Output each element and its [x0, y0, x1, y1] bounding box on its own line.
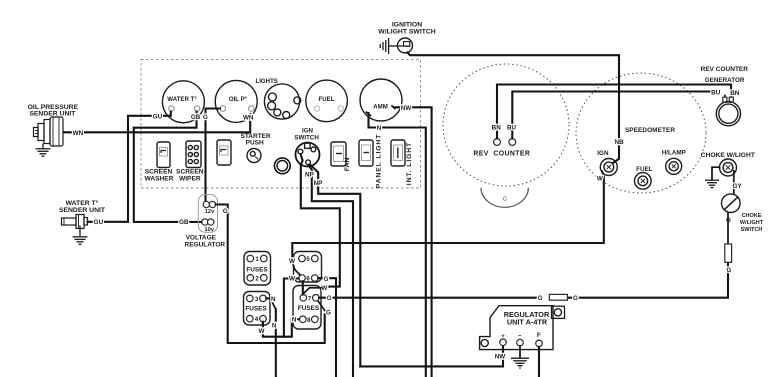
switch FAN: [331, 142, 346, 166]
svg-text:BU: BU: [507, 125, 517, 132]
svg-text:FUSES: FUSES: [245, 306, 267, 313]
svg-text:REV COUNTER: REV COUNTER: [701, 66, 749, 73]
svg-text:BU: BU: [711, 89, 721, 96]
wire: choke lamp to ground: [712, 167, 719, 180]
svg-text:W: W: [597, 175, 603, 182]
svg-text:FUEL: FUEL: [319, 96, 335, 103]
svg-text:C: C: [503, 197, 507, 203]
wire G net: regulator 12v to fuse7 (big loop): [216, 205, 325, 344]
rev counter terminals: [494, 139, 501, 146]
gauge OIL P: [215, 80, 257, 122]
svg-text:CHOKE: CHOKE: [742, 213, 762, 219]
wire W net: speedometer IGN lamp to fuse area: [292, 172, 604, 258]
speedometer dotted outline: [576, 73, 706, 193]
svg-text:W/LIGHT: W/LIGHT: [740, 220, 764, 226]
svg-text:GB: GB: [191, 114, 201, 121]
svg-text:IGN: IGN: [302, 127, 314, 134]
svg-text:WN: WN: [73, 130, 84, 137]
choke w/light switch: [722, 194, 741, 213]
ground at ignition w/light switch (horizontal): [380, 38, 397, 54]
ground at regulator - terminal: [519, 346, 521, 358]
svg-text:UNIT A-4TR: UNIT A-4TR: [507, 318, 548, 327]
svg-text:−: −: [518, 333, 522, 339]
fuse block 1-2: [244, 252, 271, 286]
cigar lighter ring: [274, 158, 290, 174]
wire NW: branch to regulator + terminal: [360, 346, 503, 367]
svg-text:NW: NW: [401, 105, 412, 112]
svg-text:AMM: AMM: [373, 104, 388, 111]
wire GU water sender to junction: [88, 221, 129, 223]
svg-text:PUSH: PUSH: [246, 139, 264, 146]
svg-text:GU: GU: [153, 113, 163, 120]
switch SCREEN WIPER: [186, 141, 201, 168]
svg-text:FUSES: FUSES: [298, 305, 320, 312]
svg-text:SENDER UNIT: SENDER UNIT: [59, 207, 106, 214]
wire BN: rev counter to generator: [497, 85, 731, 139]
svg-text:NW: NW: [495, 353, 506, 360]
regulator unit A-4TR: [480, 306, 553, 350]
svg-text:BN: BN: [730, 90, 740, 97]
svg-text:SWITCH: SWITCH: [741, 227, 763, 233]
fuse block 3-4: [244, 292, 271, 326]
voltage regulator: [198, 195, 217, 233]
svg-text:N: N: [377, 125, 382, 132]
svg-text:WN: WN: [243, 114, 254, 121]
svg-text:FUSES: FUSES: [246, 267, 268, 274]
wire N1: fuse3 to bottom: [266, 297, 271, 299]
inline fuse (choke circuit): [725, 244, 732, 262]
svg-text:BN: BN: [492, 125, 502, 132]
wire N: ammeter to bottom edge: [369, 113, 426, 377]
svg-text:G: G: [538, 295, 543, 302]
wire NP net A: ign switch to W3/fuse6: [301, 154, 340, 287]
switch PANEL LIGHT: [359, 140, 373, 166]
svg-text:WIPER: WIPER: [179, 176, 201, 183]
svg-text:GU: GU: [94, 219, 104, 226]
wire GY: choke lamp to choke switch: [733, 171, 735, 194]
svg-text:WATER T°: WATER T°: [66, 199, 99, 207]
ground at choke lamp: [705, 180, 719, 187]
gauge AMM: [360, 79, 402, 121]
ground at oil sender: [36, 144, 51, 157]
svg-text:12v: 12v: [205, 209, 215, 215]
svg-text:GB: GB: [179, 219, 189, 226]
svg-text:W: W: [321, 285, 327, 292]
svg-text:CHOKE W/LIGHT: CHOKE W/LIGHT: [701, 152, 756, 159]
svg-text:N: N: [271, 296, 276, 303]
ammeter terminal ticks: [367, 106, 396, 116]
fuse block 5-6: [294, 252, 322, 283]
svg-text:W: W: [289, 258, 295, 265]
switch unlabeled (lighting): [217, 140, 231, 165]
svg-text:NB: NB: [614, 139, 624, 146]
wire: choke switch down to inline fuse: [727, 213, 729, 244]
svg-text:G: G: [223, 208, 228, 215]
svg-text:VOLTAGE: VOLTAGE: [186, 235, 217, 242]
svg-text:N: N: [292, 316, 297, 323]
svg-text:G: G: [573, 295, 578, 302]
svg-text:NP: NP: [305, 171, 314, 178]
wire NW: ammeter to bottom edge: [395, 107, 432, 377]
wire GU net: water gauge left terminal down to sender junction: [128, 112, 171, 222]
svg-text:G: G: [326, 310, 331, 317]
svg-text:W: W: [289, 276, 295, 283]
svg-text:W/LIGHT SWITCH: W/LIGHT SWITCH: [378, 29, 435, 36]
wire WN oil sender to oil gauge: [64, 114, 251, 132]
svg-text:OIL P°: OIL P°: [229, 96, 248, 103]
svg-text:NP: NP: [314, 180, 323, 187]
svg-text:PANEL LIGHT: PANEL LIGHT: [375, 134, 382, 189]
svg-text:FAN: FAN: [344, 158, 351, 172]
wire G bus: fuse7-right to inline fuse and choke switch: [319, 297, 536, 299]
wire W2: fuse6-left to down riser: [284, 279, 299, 337]
svg-text:G: G: [203, 114, 208, 121]
svg-text:G: G: [726, 267, 731, 274]
gauge LIGHTS: [264, 84, 299, 119]
switch SCREEN WASHER: [157, 142, 170, 168]
wire F: regulator to bottom edge: [538, 347, 540, 377]
wire NP net C: ign switch to regulator + (NW): [310, 164, 360, 366]
svg-text:INT. LIGHT: INT. LIGHT: [406, 142, 413, 185]
svg-text:G: G: [323, 276, 328, 283]
ground at water sender: [73, 226, 88, 245]
svg-text:WASHER: WASHER: [145, 176, 174, 183]
svg-text:IGNITION: IGNITION: [392, 21, 422, 28]
svg-text:G: G: [327, 295, 332, 302]
svg-text:H/LAMP: H/LAMP: [662, 149, 686, 156]
svg-text:SCREEN: SCREEN: [145, 169, 173, 176]
wire BU: rev counter to generator: [512, 92, 710, 139]
wire: fuse6-left down to fuse7-left: [302, 281, 304, 294]
svg-text:SPEEDOMETER: SPEEDOMETER: [625, 127, 675, 134]
svg-text:GENERATOR: GENERATOR: [705, 77, 745, 84]
rev counter terminal cutout C: [481, 188, 528, 208]
wire: fuse7 right to G3 diagonal: [318, 301, 325, 311]
fuse block 7-8: [293, 286, 321, 330]
svg-text:IGN: IGN: [597, 150, 609, 157]
wire W3 into 6-7 link: [304, 288, 321, 294]
svg-text:GY: GY: [732, 183, 742, 190]
switch INT. LIGHT: [391, 140, 405, 166]
svg-text:SCREEN: SCREEN: [176, 169, 204, 176]
instrument panel dashed boundary: [141, 59, 421, 188]
wire NP net B: ign switch to bottom edge: [308, 165, 353, 377]
svg-text:LIGHTS: LIGHTS: [256, 78, 278, 85]
svg-text:10v: 10v: [204, 227, 214, 233]
svg-text:N: N: [272, 323, 277, 330]
wire G1: fuse6-right to G bus: [318, 278, 336, 377]
wire W4: fuse4 down, right, up to fuse8-left (N): [263, 319, 299, 337]
wire GB net: water gauge right terminal to voltage regulator: [134, 112, 202, 222]
wire: ignition w/light switch to speedometer IGN lamp (NB): [408, 53, 620, 163]
rev counter dotted outline: [443, 64, 569, 186]
svg-text:F: F: [537, 333, 541, 339]
gauge WATER T: [162, 81, 204, 123]
svg-text:W: W: [259, 328, 265, 335]
gauge FUEL: [306, 80, 348, 122]
svg-text:REGULATOR: REGULATOR: [185, 242, 226, 249]
wire G net: oil gauge left terminal down to voltage regulator: [206, 109, 221, 202]
svg-text:SWITCH: SWITCH: [294, 135, 319, 142]
svg-text:WATER T°: WATER T°: [167, 96, 197, 103]
svg-text:REV COUNTER: REV COUNTER: [473, 150, 530, 157]
wire W1 diagonal to fuse6-left: [293, 263, 301, 275]
